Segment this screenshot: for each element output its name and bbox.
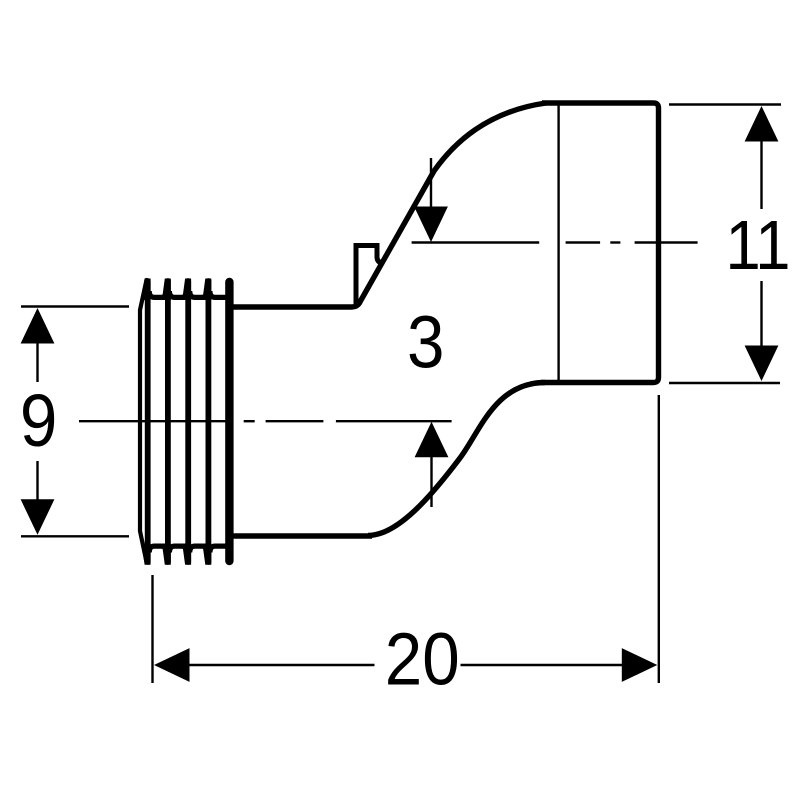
dimension 11 upper arrow — [745, 106, 779, 142]
socket depth line — [557, 104, 559, 382]
gasket axis centerline — [79, 420, 452, 422]
gasket top web between fin1 and fin2 — [149, 291, 166, 297]
gasket bottom web between fin2 and fin3 — [169, 546, 186, 552]
dimension 9 extension line bottom — [21, 535, 129, 537]
svg-text:9: 9 — [20, 379, 57, 462]
gasket top web between fin3 and fin4 — [190, 291, 207, 297]
gasket bottom web between fin1 and fin2 — [149, 546, 166, 552]
dimension 20 label — [385, 618, 460, 701]
pipe axis centerline — [412, 241, 698, 243]
gasket fin 4 — [205, 281, 211, 562]
dimension 11 extension line bottom — [669, 382, 780, 384]
dimension 9 upper arrow — [21, 308, 55, 344]
gasket top web between fin4 and flange — [210, 291, 227, 297]
outlet pipe outline — [541, 103, 659, 383]
svg-text:20: 20 — [385, 618, 460, 701]
dimension 3 upper arrow — [414, 207, 448, 243]
dimension 9 upper stem — [36, 343, 38, 382]
dimension 11 lower arrow — [745, 346, 779, 382]
gasket fin tooth bottom at x208.4 — [202, 544, 211, 565]
lower S-curve of body sweep — [368, 383, 545, 536]
gasket left outer edge — [140, 280, 147, 562]
dimension 11 label — [725, 206, 789, 284]
dimension 9 lower stem — [36, 461, 38, 500]
body bottom outline — [231, 533, 372, 539]
svg-text:11: 11 — [725, 206, 789, 284]
gasket fin tooth top at x167.9 — [162, 279, 171, 301]
gasket fin 2 — [165, 281, 171, 562]
body top outline — [231, 103, 546, 307]
dimension 9 label — [20, 379, 57, 462]
gasket fin tooth top at x188.2 — [182, 279, 191, 301]
dimension 11 upper stem — [760, 141, 762, 209]
dimension 3 lower stem — [430, 457, 432, 507]
gasket fin tooth bottom at x167.9 — [162, 544, 171, 565]
gasket fin 3 — [185, 281, 191, 562]
gasket bottom web between fin3 and fin4 — [190, 546, 207, 552]
gasket fin tooth top at x147.7 — [142, 279, 151, 301]
dimension 20 line right segment — [461, 664, 624, 666]
retaining tab — [356, 246, 384, 306]
gasket fin tooth bottom at x188.2 — [182, 544, 191, 565]
dimension 11 lower stem — [760, 281, 762, 349]
gasket fin tooth bottom at x147.7 — [142, 544, 151, 565]
gasket fin tooth top at x208.4 — [202, 279, 211, 301]
gasket fin 1 — [145, 281, 151, 562]
dimension 9 extension line top — [21, 305, 129, 307]
dimension 20 right arrow — [622, 648, 658, 682]
dimension 20 line left segment — [188, 664, 375, 666]
svg-text:3: 3 — [407, 301, 444, 384]
gasket bottom web between fin4 and flange — [210, 546, 227, 552]
dimension 3 upper stem — [430, 158, 432, 212]
gasket end flange bar — [225, 282, 233, 561]
dimension 20 extension line left — [151, 575, 153, 683]
dimension 3 label — [407, 301, 444, 384]
dimension 11 extension line top — [669, 103, 781, 105]
dimension 20 left arrow — [154, 648, 190, 682]
dimension 3 lower arrow — [415, 422, 449, 458]
gasket top web between fin2 and fin3 — [169, 291, 186, 297]
dimension 20 extension line right — [658, 395, 660, 683]
dimension 9 lower arrow — [21, 499, 55, 535]
